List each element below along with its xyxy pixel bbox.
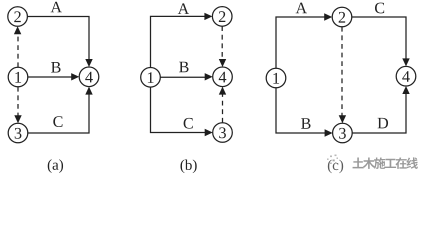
node 1 (a): [8, 67, 28, 87]
node 3 (c): [333, 123, 353, 143]
caption (b): [181, 159, 197, 173]
caption (c): [328, 160, 343, 174]
wire: activity C arrow from node 2 to node 4 (diagram c): [352, 17, 410, 66]
wire: dashed dummy arrow from node 1 to node 3 (diagram a): [14, 87, 21, 123]
label: activity C (diagram a): [53, 116, 62, 127]
watermark logo icon: [327, 155, 338, 165]
wire: activity B arrow from node 1 to node 4 (diagram a): [28, 73, 79, 80]
wire: dashed dummy arrow from node 2 to node 3 (diagram c): [339, 27, 346, 123]
wire: activity A arrow from node 1 to node 2 (diagram c): [276, 13, 332, 68]
wire: activity C arrow from node 1 to node 3 (diagram b): [151, 87, 213, 136]
node 2 (c): [332, 7, 352, 27]
wire: dashed dummy arrow from node 3 to node 4 (diagram b): [219, 87, 226, 123]
label: activity A (diagram a): [51, 2, 62, 13]
node 4 (c): [396, 66, 416, 86]
wire: activity C arrow from node 3 to node 4 (diagram a): [28, 87, 93, 133]
caption (a): [48, 159, 63, 173]
wire: activity B arrow from node 1 to node 3 (diagram c): [276, 88, 333, 137]
node 3 (a): [8, 123, 28, 143]
node 2 (b): [212, 7, 232, 27]
node 3 (b): [213, 123, 233, 143]
node 4 (b): [213, 67, 233, 87]
wire: activity D arrow from node 3 to node 4 (diagram c): [352, 86, 410, 133]
node 2 (a): [8, 7, 28, 27]
label: activity D (diagram c): [378, 118, 388, 129]
node 1 (c): [266, 68, 286, 88]
label: activity A (diagram c): [296, 3, 307, 14]
wire: activity A arrow from node 1 to node 2 (diagram b): [151, 13, 213, 68]
watermark text 土木施工在线: [353, 157, 418, 169]
node 1 (b): [141, 68, 161, 88]
wire: activity A arrow from node 2 to node 4 (diagram a): [27, 17, 92, 68]
label: activity C (diagram c): [375, 3, 384, 14]
label: activity C (diagram b): [184, 118, 193, 129]
label: activity A (diagram b): [178, 3, 189, 14]
label: activity B (diagram b): [179, 62, 188, 73]
node 4 (a): [79, 67, 99, 87]
wire: activity B arrow from node 1 to node 4 (diagram b): [160, 73, 212, 80]
wire: dashed dummy arrow from node 1 to node 2 (diagram a): [14, 26, 21, 67]
wire: dashed dummy arrow from node 2 to node 4 (diagram b): [219, 26, 226, 67]
label: activity B (diagram a): [51, 62, 60, 73]
label: activity B (diagram c): [301, 118, 310, 129]
